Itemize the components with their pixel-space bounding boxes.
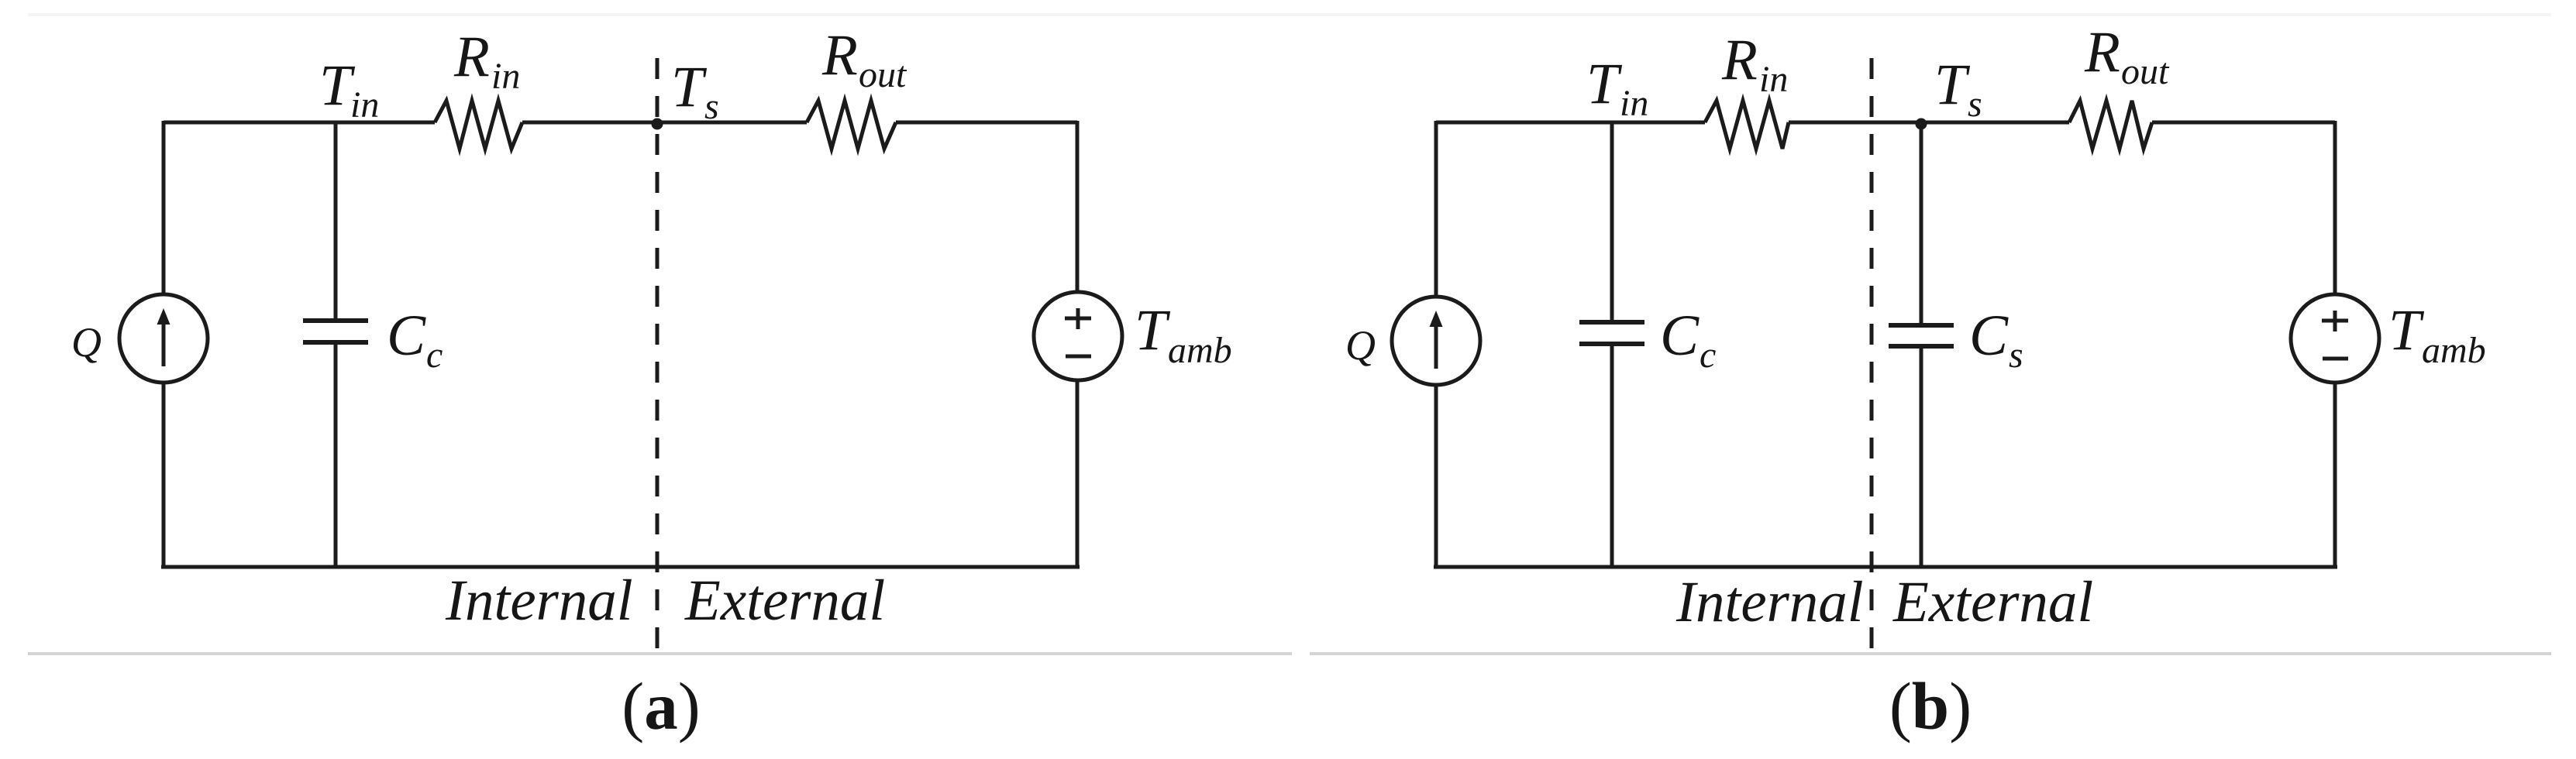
capacitor Cc (b) [1579,322,1644,344]
gray rule under panel (a) [28,652,1292,655]
svg-text:in: in [491,56,520,97]
label resistor Rin (b) [1721,28,1788,100]
node Ts junction dot (b) [1916,118,1927,130]
wire (b) right branch lower [2333,382,2337,568]
label source Tamb (b) [2388,298,2486,371]
svg-text:Q: Q [71,319,102,366]
label resistor Rin (a) [453,25,520,97]
wire (b) left branch lower [1434,384,1438,568]
wire (a) top-right: Rout to right corner [896,121,1077,125]
label source Tamb (a) [1135,298,1232,371]
wire (a) left branch lower [162,382,166,568]
current source Q (a) [119,294,208,383]
svg-text:amb: amb [2422,330,2486,371]
svg-text:External: External [1892,570,2093,634]
label node Tin (a) [319,53,379,125]
svg-text:T: T [2388,298,2425,362]
wire (a) right branch lower [1076,379,1080,568]
wire (b) capacitor Cs branch lower [1920,349,1923,568]
boundary dashed line (b) [1870,58,1874,654]
wire (b) capacitor Cc branch upper [1610,122,1614,320]
svg-text:in: in [1620,83,1648,124]
svg-text:C: C [387,304,426,368]
svg-text:C: C [1969,304,2009,368]
wire (a) left branch upper [162,121,166,295]
label capacitor Cc (b) [1660,304,1716,376]
wire (b) right branch upper [2333,121,2337,295]
current source Q (b) [1392,297,1480,385]
svg-text:c: c [426,335,443,376]
svg-text:R: R [453,25,490,89]
wire (b) top-middle: Rin to node Ts [1789,121,2069,125]
wire (a) top-middle: Rin to node Ts [522,121,807,125]
wire (b) top-right: Rout to right corner [2152,121,2335,125]
svg-text:T: T [671,55,708,119]
svg-text:Internal: Internal [445,568,633,633]
svg-text:T: T [1586,52,1623,116]
svg-text:out: out [859,54,907,95]
wire (a) top-left: source Q to resistor Rin [164,121,435,125]
wire (b) capacitor Cc branch lower [1610,346,1614,568]
capacitor Cc (a) [303,321,368,342]
svg-text:amb: amb [1168,330,1232,371]
resistor Rin (b) [1705,101,1789,149]
faint top rule [28,13,2551,16]
svg-text:(a): (a) [622,668,700,744]
wire (a) bottom return [161,565,1080,569]
svg-text:T: T [1934,53,1971,117]
resistor Rout (b) [2069,101,2152,149]
svg-text:Internal: Internal [1675,570,1864,634]
label resistor Rout (a) [821,23,907,95]
wire (a) right branch upper [1076,121,1080,293]
resistor Rin (a) [435,101,522,149]
boundary dashed line (a) [656,58,659,649]
label capacitor Cc (a) [387,304,443,376]
wire (b) capacitor Cs branch upper [1920,124,1923,323]
svg-text:External: External [684,568,885,633]
svg-text:Q: Q [1345,322,1376,369]
label capacitor Cs (b) [1969,304,2023,376]
label node Tin (b) [1586,52,1648,124]
svg-text:R: R [821,23,858,88]
wire (b) left branch upper [1434,121,1438,297]
svg-text:c: c [1700,335,1716,376]
node Ts junction dot (a) [652,118,663,130]
label node Ts (b) [1934,53,1982,125]
label node Ts (a) [671,55,719,127]
svg-text:R: R [2084,20,2120,84]
svg-text:T: T [1135,298,1171,362]
label resistor Rout (b) [2084,20,2170,92]
svg-text:s: s [1968,84,1982,125]
voltage source Tamb (b) [2291,294,2379,383]
svg-text:s: s [704,86,719,127]
svg-text:(b): (b) [1889,668,1972,744]
voltage source Tamb (a) [1034,292,1122,380]
svg-text:s: s [2009,335,2023,376]
svg-text:out: out [2121,51,2170,92]
resistor Rout (a) [807,101,896,149]
wire (b) top-left: source Q to resistor Rin [1436,121,1705,125]
svg-text:C: C [1660,304,1700,368]
wire (a) capacitor Cc branch upper [334,122,338,318]
svg-text:R: R [1721,28,1758,92]
wire (b) bottom return [1434,565,2337,569]
svg-text:in: in [1759,59,1788,100]
svg-text:in: in [350,84,379,125]
capacitor Cs (b) [1889,325,1954,346]
wire (a) capacitor Cc branch lower [334,345,338,568]
gray rule under panel (b) [1310,652,2551,655]
